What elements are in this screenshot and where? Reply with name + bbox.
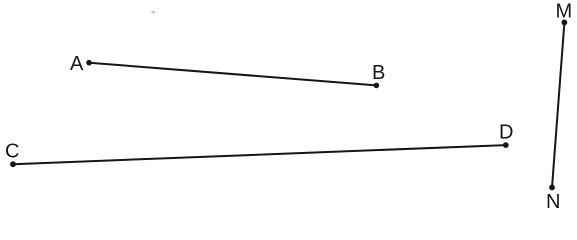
svg-text:B: B	[372, 62, 385, 84]
svg-text:D: D	[499, 122, 513, 144]
svg-text:N: N	[546, 191, 560, 213]
svg-text:C: C	[5, 141, 19, 163]
svg-text:A: A	[70, 53, 84, 75]
svg-text:M: M	[556, 1, 573, 23]
